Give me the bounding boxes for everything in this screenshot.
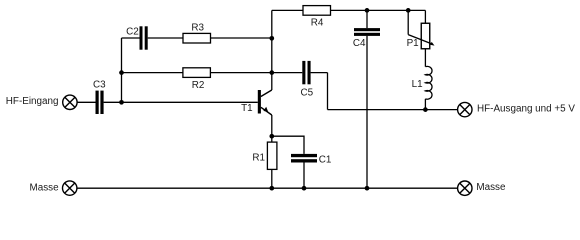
wire C5 corner vertical	[327, 73, 329, 110]
svg-text:HF-Ausgang und +5 V: HF-Ausgang und +5 V	[477, 104, 575, 115]
node Masse right connector	[458, 181, 472, 195]
wire output horizontal	[328, 109, 458, 111]
wire top rail left (collector column to R4)	[272, 9, 303, 11]
resistor R3	[183, 23, 211, 43]
svg-text:C1: C1	[319, 154, 332, 165]
wire emitter junction to C1 branch	[272, 136, 304, 154]
svg-text:C5: C5	[300, 88, 313, 99]
node input junction	[119, 100, 124, 105]
potentiometer P1	[407, 23, 435, 49]
svg-text:R1: R1	[252, 153, 265, 164]
node L1 output junction	[423, 107, 428, 112]
node HF-Ausgang connector	[458, 102, 472, 116]
node collector-R3 junction	[269, 36, 274, 41]
wire R2 branch left segment	[122, 72, 183, 74]
resistor R4	[303, 6, 331, 29]
wire P1 to L1	[424, 49, 426, 67]
node emitter junction	[269, 134, 274, 139]
node ground C1 junction	[302, 186, 307, 191]
svg-text:C4: C4	[353, 38, 366, 49]
svg-text:Masse: Masse	[476, 182, 506, 193]
capacitor C2	[126, 26, 148, 49]
wire L1 bottom lead	[424, 99, 426, 110]
wire input connector to C3	[77, 101, 95, 103]
capacitor C1	[291, 154, 332, 166]
svg-text:C2: C2	[126, 27, 139, 38]
transistor T1	[241, 90, 272, 115]
wire R1 bottom lead	[271, 169, 273, 188]
svg-text:L1: L1	[412, 79, 423, 90]
capacitor C4	[353, 28, 380, 49]
svg-text:Masse: Masse	[30, 182, 60, 193]
wire ground rail	[77, 187, 458, 189]
wire P1 top lead	[424, 10, 426, 23]
wire top rail middle (R4 to P1 corner)	[331, 9, 426, 11]
svg-text:R3: R3	[191, 23, 204, 34]
wire P1 wiper vertical	[407, 10, 409, 34]
wire R3 to collector column	[211, 37, 272, 39]
node collector-R2 junction	[269, 70, 274, 75]
svg-text:C3: C3	[93, 79, 106, 90]
wire C4 bottom lead to ground	[366, 36, 368, 188]
svg-text:HF-Eingang: HF-Eingang	[6, 96, 59, 107]
wire collector vertical	[271, 10, 273, 90]
capacitor C3	[93, 79, 106, 114]
node left column R2 junction	[119, 70, 124, 75]
wire C2 to R3	[148, 37, 183, 39]
wire C3 to base	[104, 101, 258, 103]
svg-text:R4: R4	[311, 18, 324, 29]
svg-text:T1: T1	[241, 103, 253, 114]
wire C5 to corner	[311, 72, 328, 74]
node top rail P1 junction	[406, 8, 411, 13]
wire C1 bottom lead	[303, 162, 305, 188]
node ground C4 junction	[365, 186, 370, 191]
wire C4 top lead	[366, 10, 368, 28]
node top rail C4 junction	[365, 8, 370, 13]
wire emitter vertical	[271, 115, 273, 142]
node ground R1 junction	[269, 186, 274, 191]
wire R2 to C5	[210, 72, 302, 74]
node Masse left connector	[62, 181, 76, 195]
inductor L1	[412, 66, 432, 99]
svg-text:R2: R2	[192, 80, 205, 91]
svg-text:P1: P1	[407, 38, 420, 49]
wire C2/R3 branch left segment	[122, 37, 140, 39]
node HF-Eingang connector	[63, 95, 77, 109]
resistor R1	[252, 142, 277, 169]
wire left column vertical	[121, 38, 123, 102]
capacitor C5	[300, 61, 313, 99]
resistor R2	[183, 68, 211, 91]
